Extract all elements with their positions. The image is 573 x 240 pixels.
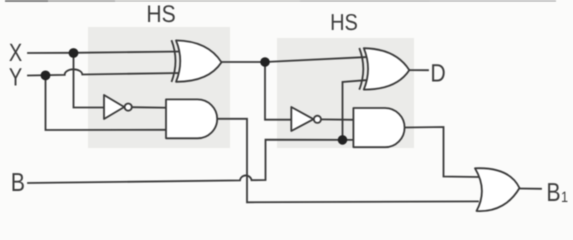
xor gate XOR1 (HS1 difference) <box>172 40 222 82</box>
junction dot on B line at AND2 input <box>338 135 348 145</box>
svg-text:D: D <box>430 60 445 88</box>
junction dot on X line <box>69 48 79 58</box>
svg-text:HS: HS <box>330 9 358 35</box>
inverter NOT1 (inverts X) <box>104 95 132 119</box>
inverter NOT2 (inverts diff1) <box>291 107 321 131</box>
wire OR output to B1 <box>519 188 541 190</box>
wire XOR1 output (difference 1) to XOR2 top input <box>222 57 369 62</box>
svg-text:HS: HS <box>146 1 175 28</box>
svg-text:B: B <box>11 167 25 197</box>
and gate AND2 (HS2 borrow) <box>353 108 404 147</box>
svg-text:1: 1 <box>561 189 568 206</box>
xor gate XOR2 (HS2 difference, output D) <box>359 48 409 90</box>
wire X input to XOR1 top input <box>28 52 180 54</box>
junction dot on Y line <box>41 71 51 81</box>
wire X branch down to NOT1 input <box>74 53 105 108</box>
wire Y input with hop over X branch, to XOR1 bottom input <box>28 69 180 75</box>
wire B branch up to XOR2 bottom input <box>343 80 369 140</box>
wire Y branch down to AND1 bottom input <box>46 75 168 130</box>
wire NOT1 output to AND1 top input <box>132 106 167 109</box>
wire AND2 output to OR top input <box>405 127 479 177</box>
junction dot on diff1 line <box>260 57 270 67</box>
or gate OR1 (borrow out B1) <box>475 168 520 211</box>
wire diff1 branch down to NOT2 input <box>265 62 292 120</box>
wire B input with hop over AND1 output, up and right to AND2 bottom input <box>28 140 355 183</box>
wire XOR2 output to D <box>409 69 428 71</box>
wire AND1 output down and along bottom to OR bottom input <box>217 119 478 203</box>
svg-text:B: B <box>546 177 560 207</box>
svg-text:Y: Y <box>9 64 23 92</box>
and gate AND1 (HS1 borrow) <box>166 99 217 138</box>
HS1 shading block <box>88 27 230 148</box>
wire NOT2 output to AND2 top input <box>321 118 355 120</box>
scan artifact top edge <box>5 0 556 2</box>
HS2 shading block <box>277 38 414 148</box>
